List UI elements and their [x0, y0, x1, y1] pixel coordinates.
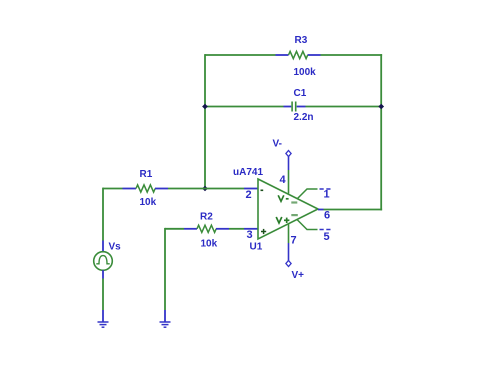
- wire top feedback R3 net: right segment: [321, 54, 383, 56]
- svg-text:Vs: Vs: [109, 242, 122, 253]
- wire output to right vertical: [324, 209, 383, 211]
- svg-text:10k: 10k: [140, 197, 157, 208]
- ground symbol (Vs): [98, 322, 109, 327]
- pin 5 offset line dashes: [320, 229, 332, 231]
- pin 4 supply line (green part): [288, 170, 290, 194]
- svg-text:V+: V+: [292, 270, 305, 281]
- resistor R3 zigzag body: [289, 51, 308, 58]
- svg-text:100k: 100k: [294, 67, 317, 78]
- source Vs bottom pin lead: [102, 270, 104, 278]
- wire R1 to op-amp inverting input: [168, 188, 244, 190]
- svg-text:R1: R1: [140, 169, 153, 180]
- ground lead (R2): [164, 310, 166, 322]
- wire right vertical of feedback loop: [380, 54, 382, 210]
- internal label V-: [278, 195, 288, 201]
- svg-text:6: 6: [324, 210, 330, 222]
- op-amp U1 triangle: [258, 179, 318, 239]
- resistor R2 left pin lead: [184, 228, 197, 230]
- wire Vs top vertical: [102, 188, 104, 241]
- internal label V+: [276, 217, 289, 223]
- junction dot at C1 left: [202, 104, 208, 110]
- resistor R3 right pin lead: [308, 54, 321, 56]
- resistor R1 left pin lead: [123, 188, 137, 190]
- svg-text:C1: C1: [294, 88, 307, 99]
- svg-text:4: 4: [280, 174, 287, 186]
- ground lead (Vs): [102, 310, 104, 322]
- svg-text:3: 3: [247, 229, 253, 241]
- resistor R3 left pin lead: [276, 54, 289, 56]
- resistor R1 zigzag body: [136, 185, 155, 192]
- svg-text:V-: V-: [273, 139, 282, 150]
- junction dot at C1 right: [378, 104, 384, 110]
- op-amp pin 6 lead: [318, 209, 324, 211]
- pin 5 offset line solid: [297, 220, 318, 230]
- pin 7 supply line (green part): [288, 224, 290, 243]
- pin 7 supply line (blue part): [288, 243, 290, 261]
- capacitor C1 right plate: [295, 102, 297, 112]
- svg-text:7: 7: [291, 235, 297, 247]
- ground symbol (R2): [160, 322, 171, 327]
- svg-text:2.2n: 2.2n: [294, 112, 314, 123]
- pin 1 offset line dashes: [320, 188, 332, 190]
- pin 4 supply line (blue part): [288, 156, 290, 170]
- svg-text:U1: U1: [250, 242, 263, 253]
- source Vs top pin lead: [102, 241, 104, 252]
- junction dot at R1 / feedback node: [202, 186, 208, 192]
- V- terminal diamond: [286, 151, 291, 157]
- svg-text:2: 2: [246, 189, 252, 201]
- wire R2 net: left corner to R2: [165, 228, 184, 230]
- source Vs waveform: [96, 256, 109, 264]
- wire R1 net: source corner to R1: [103, 188, 123, 190]
- V+ terminal diamond: [286, 261, 291, 267]
- svg-text:10k: 10k: [201, 239, 218, 250]
- svg-text:5: 5: [324, 231, 330, 243]
- wire C1 net left segment: [205, 106, 284, 108]
- resistor R1 right pin lead: [155, 188, 168, 190]
- svg-text:R2: R2: [200, 212, 213, 223]
- wire left vertical of feedback loop: [204, 54, 206, 188]
- svg-text:1: 1: [324, 189, 330, 201]
- wire C1 net right segment: [306, 106, 383, 108]
- op-amp pin 3 lead: [244, 228, 258, 230]
- pin 1 offset line solid: [297, 189, 318, 199]
- wire R2 to op-amp non-inverting input: [229, 228, 244, 230]
- op-amp inverting marker -: [261, 189, 264, 191]
- wire Vs bottom vertical to ground: [102, 279, 104, 311]
- capacitor C1 left pin lead: [284, 106, 292, 108]
- svg-text:R3: R3: [295, 35, 308, 46]
- wire top feedback R3 net: left segment: [205, 54, 276, 56]
- wire R2 left vertical to ground: [164, 228, 166, 310]
- internal label os2: [291, 214, 298, 216]
- source Vs circle body: [94, 252, 113, 271]
- resistor R2 zigzag body: [197, 225, 216, 232]
- capacitor C1 left plate: [291, 102, 293, 112]
- capacitor C1 right pin lead: [297, 106, 306, 108]
- resistor R2 right pin lead: [216, 228, 229, 230]
- op-amp pin 2 lead: [244, 188, 258, 190]
- svg-text:uA741: uA741: [233, 167, 263, 178]
- internal label os1: [291, 201, 297, 203]
- op-amp non-inverting marker +: [261, 229, 266, 234]
